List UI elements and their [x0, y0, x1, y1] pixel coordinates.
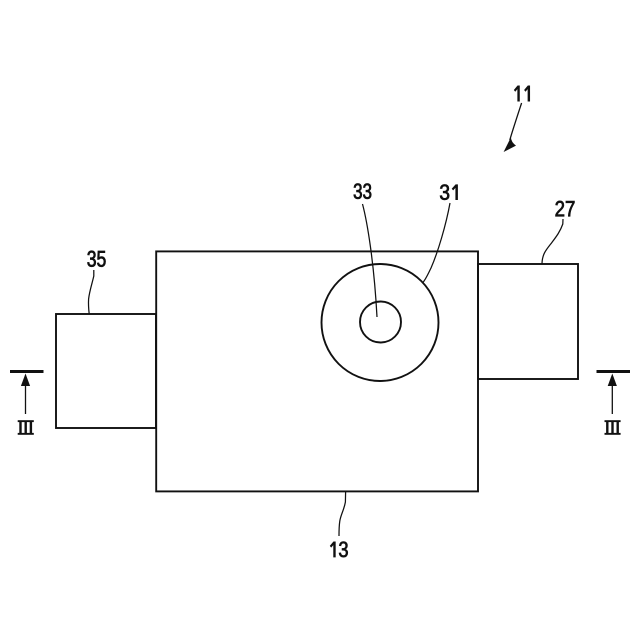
- right label III: [605, 420, 621, 435]
- left label III: [18, 420, 34, 435]
- label 33: [354, 184, 371, 199]
- leader line to 27: [542, 219, 563, 264]
- left lug 35 (small rectangle): [56, 314, 156, 428]
- label 31: [440, 185, 458, 200]
- right section cut mark III: [597, 372, 631, 415]
- label 27: [556, 201, 575, 216]
- left section cut mark III: [10, 372, 44, 415]
- label 35: [87, 251, 105, 267]
- label 13: [330, 542, 347, 558]
- reference arrow for 11: [510, 103, 522, 140]
- body 13 (main rectangle): [156, 251, 478, 491]
- boss 31 (outer circle): [322, 264, 439, 381]
- leader line to 35: [88, 270, 93, 314]
- hole 33 (inner circle): [360, 302, 401, 343]
- leader line to 31: [423, 203, 451, 283]
- label 11: [514, 86, 529, 101]
- leader line to 33: [363, 204, 378, 317]
- leader line to 13: [339, 492, 346, 536]
- right lug 27 (small rectangle): [478, 264, 578, 379]
